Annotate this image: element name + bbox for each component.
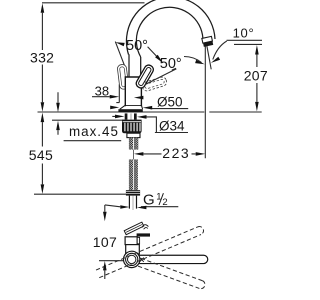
svg-text:50°: 50° xyxy=(126,38,148,54)
svg-text:2: 2 xyxy=(162,197,167,208)
svg-text:Ø50: Ø50 xyxy=(157,94,183,109)
svg-text:545: 545 xyxy=(29,147,53,163)
svg-text:38: 38 xyxy=(95,83,109,98)
svg-text:max.45: max.45 xyxy=(69,124,119,139)
svg-text:G: G xyxy=(143,192,155,209)
svg-text:223: 223 xyxy=(162,145,190,161)
svg-text:207: 207 xyxy=(244,67,268,83)
svg-text:Ø34: Ø34 xyxy=(159,119,185,134)
svg-text:332: 332 xyxy=(30,49,54,65)
svg-text:107: 107 xyxy=(93,234,117,250)
svg-text:50°: 50° xyxy=(160,56,182,72)
svg-text:10°: 10° xyxy=(233,26,255,41)
